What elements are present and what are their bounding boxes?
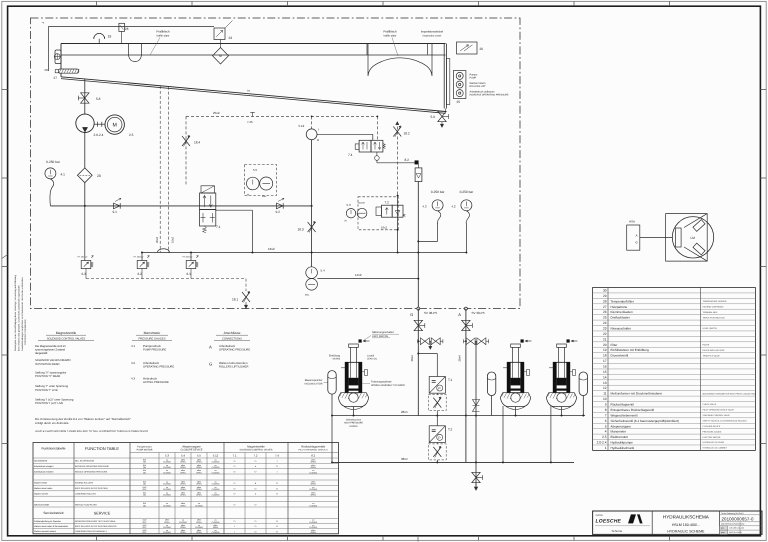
svg-text:Walzen manuell senken: Walzen manuell senken xyxy=(34,530,57,533)
svg-text:18.2: 18.2 xyxy=(404,132,410,136)
svg-text:Niveauschalter: Niveauschalter xyxy=(611,327,631,331)
svg-text:Arbeitsdruck aufbauen: Arbeitsdruck aufbauen xyxy=(470,91,496,94)
svg-text:CLOSED: CLOSED xyxy=(195,504,203,507)
svg-text:O: O xyxy=(276,465,278,468)
svg-text:2.96.199 LOe_ehd: 2.96.199 LOe_ehd xyxy=(729,527,744,530)
svg-text:CONNECTIONS: CONNECTIONS xyxy=(222,337,242,340)
svg-text:M: M xyxy=(113,123,117,129)
level switch 26 xyxy=(457,42,484,54)
svg-text:INCREASE OPERATING PRESSURE: INCREASE OPERATING PRESSURE xyxy=(470,93,509,96)
svg-text:5.3: 5.3 xyxy=(165,454,169,458)
svg-text:9.1: 9.1 xyxy=(113,210,118,214)
valve 23 xyxy=(214,21,233,41)
svg-text:Federungszylinder: Federungszylinder xyxy=(371,381,392,384)
svg-text:28: 28 xyxy=(603,299,607,303)
label Prallblech right xyxy=(383,30,398,57)
svg-text:Klemmenkasten: Klemmenkasten xyxy=(611,310,633,314)
motor 2.5 xyxy=(105,115,134,137)
svg-text:CLOSED: CLOSED xyxy=(212,531,220,534)
svg-text:FILTER: FILTER xyxy=(703,344,710,347)
safety valve 6.3 xyxy=(78,206,94,279)
svg-text:G: G xyxy=(209,361,212,366)
svg-text:REDUCE OPERATING PRESSURE: REDUCE OPERATING PRESSURE xyxy=(75,470,108,473)
svg-text:LEVEL SWITCH: LEVEL SWITCH xyxy=(703,327,718,330)
svg-text:O: O xyxy=(255,487,257,490)
svg-text:LOWERING ROLLERS MANUALLY: LOWERING ROLLERS MANUALLY xyxy=(75,530,108,533)
line 14x2 xyxy=(317,273,418,278)
svg-text:Dreifachtaster: Dreifachtaster xyxy=(611,316,630,320)
svg-text:7.4: 7.4 xyxy=(275,454,279,458)
svg-text:Stellung "I (x2)" unter Spannu: Stellung "I (x2)" unter Spannung xyxy=(35,399,74,402)
mill housing xyxy=(666,214,708,262)
svg-text:CLOSED: CLOSED xyxy=(163,483,171,486)
cylinder assembly 3 xyxy=(546,339,577,462)
svg-text:20: 20 xyxy=(603,343,607,347)
pipe x397 lower xyxy=(397,195,399,254)
svg-text:Prallblech: Prallblech xyxy=(156,30,170,34)
svg-text:15: 15 xyxy=(603,370,607,374)
svg-text:22: 22 xyxy=(603,332,607,336)
svg-text:OPEN: OPEN xyxy=(196,493,202,496)
svg-text:OPEN: OPEN xyxy=(311,531,317,534)
svg-text:5.12: 5.12 xyxy=(299,124,305,128)
node A on boundary xyxy=(458,307,484,317)
svg-text:7.1: 7.1 xyxy=(233,454,237,458)
svg-text:PILOT OPERATED CHECK V.: PILOT OPERATED CHECK V. xyxy=(299,449,329,452)
svg-text:SOLENOID CONTROL VALVES: SOLENOID CONTROL VALVES xyxy=(240,449,273,452)
function table xyxy=(33,443,339,535)
coupling xyxy=(94,122,105,127)
svg-text:HOSES: HOSES xyxy=(349,425,358,428)
svg-text:2.0-2.4: 2.0-2.4 xyxy=(597,441,607,445)
svg-text:20x2: 20x2 xyxy=(155,236,159,243)
pilot line from 5.12 xyxy=(317,134,373,140)
svg-text:Einfüllung: Einfüllung xyxy=(329,355,341,358)
svg-text:FILLER WITH AIR VENT: FILLER WITH AIR VENT xyxy=(703,349,726,352)
svg-text:O: O xyxy=(255,471,257,474)
svg-text:CLOSED: CLOSED xyxy=(163,466,171,469)
svg-text:A: A xyxy=(209,344,212,349)
svg-text:PARTIAL FLOW FILTER: PARTIAL FLOW FILTER xyxy=(75,503,97,506)
svg-text:gepr.: gepr. xyxy=(721,532,725,534)
svg-text:30: 30 xyxy=(603,289,607,293)
svg-text:OPEN: OPEN xyxy=(196,521,202,524)
throttle 18.4 xyxy=(182,116,200,185)
svg-text:1: 1 xyxy=(605,446,607,450)
drain valve bottom xyxy=(472,472,483,490)
svg-text:CLOSED: CLOSED xyxy=(309,521,317,524)
svg-text:O: O xyxy=(276,493,278,496)
svg-text:O: O xyxy=(255,504,257,507)
svg-text:CLOSED: CLOSED xyxy=(163,493,171,496)
svg-text:HYDRAULIC SCHEME: HYDRAULIC SCHEME xyxy=(667,529,705,533)
svg-text:O: O xyxy=(234,504,236,507)
tank top outline xyxy=(61,44,446,109)
svg-text:TRIPLE PUSH-BUTTON: TRIPLE PUSH-BUTTON xyxy=(703,316,726,319)
svg-text:0-250 bar: 0-250 bar xyxy=(431,190,446,194)
svg-text:23: 23 xyxy=(603,327,607,331)
manifold line L1 xyxy=(331,410,585,416)
svg-text:Pumpe: Pumpe xyxy=(470,74,479,77)
transmitter T.2 xyxy=(428,416,452,464)
svg-text:OPERATING PRESSURE: OPERATING PRESSURE xyxy=(219,349,250,352)
title block xyxy=(593,511,762,534)
svg-text:PUMP MOTOR: PUMP MOTOR xyxy=(137,448,153,451)
svg-text:14: 14 xyxy=(603,375,607,379)
svg-text:CLOSED: CLOSED xyxy=(163,461,171,464)
svg-text:O: O xyxy=(276,487,278,490)
svg-text:OPEN: OPEN xyxy=(180,488,186,491)
svg-text:Weitergabe sowie Vervielfältig: Weitergabe sowie Vervielfältigung dieser… xyxy=(14,274,17,351)
svg-text:Entsperrbares Rückschlagventil: Entsperrbares Rückschlagventil xyxy=(611,408,655,412)
svg-text:LIFTING PRESSURE: LIFTING PRESSURE xyxy=(143,381,169,384)
svg-text:OPEN: OPEN xyxy=(311,493,317,496)
branch to T1 xyxy=(418,354,437,377)
svg-text:PT 200 bar: PT 200 bar xyxy=(183,256,193,259)
svg-text:6.1: 6.1 xyxy=(187,272,192,276)
notes connections xyxy=(209,331,250,368)
solenoid valve 7.4 xyxy=(348,116,386,162)
svg-text:4: 4 xyxy=(605,430,607,434)
suction pipe xyxy=(84,79,86,114)
fold mark bottom xyxy=(417,536,419,542)
svg-text:16x2: 16x2 xyxy=(268,247,275,251)
svg-text:Gelenkbuchse: Gelenkbuchse xyxy=(346,419,362,422)
svg-text:PT 160 bar: PT 160 bar xyxy=(134,256,144,259)
svg-text:Walzen oben halten b.Servicebe: Walzen oben halten b.Servicebetrieb xyxy=(34,525,69,528)
svg-text:18.4: 18.4 xyxy=(194,141,200,145)
svg-text:erfolgt durch ein Zeitrelais.: erfolgt durch ein Zeitrelais. xyxy=(35,421,69,425)
svg-text:INCREASE OPERATING PRESSURE: INCREASE OPERATING PRESSURE xyxy=(75,465,110,468)
throttle 18.2 xyxy=(393,122,410,196)
pressure pipe xyxy=(84,133,86,206)
svg-text:10: 10 xyxy=(603,397,607,401)
svg-text:27: 27 xyxy=(603,305,607,309)
svg-text:Rückschlagsventile: Rückschlagsventile xyxy=(301,444,325,448)
svg-text:CLOSED: CLOSED xyxy=(309,488,317,491)
svg-text:OPEN: OPEN xyxy=(196,531,202,534)
gauge 4.2 xyxy=(451,190,474,253)
svg-text:25: 25 xyxy=(603,316,607,320)
svg-text:baffle plate: baffle plate xyxy=(384,34,397,37)
svg-text:Wegeschieberventil: Wegeschieberventil xyxy=(611,413,638,417)
svg-text:2.5: 2.5 xyxy=(602,435,607,439)
svg-text:OPEN: OPEN xyxy=(196,488,202,491)
svg-text:OPEN: OPEN xyxy=(196,461,202,464)
svg-text:OPEN: OPEN xyxy=(311,466,317,469)
svg-text:4.3: 4.3 xyxy=(422,205,427,209)
svg-text:16: 16 xyxy=(603,365,607,369)
svg-text:16x2: 16x2 xyxy=(171,236,175,243)
svg-text:Walzen heben/senken: Walzen heben/senken xyxy=(219,361,248,365)
solenoid valve 7.1 xyxy=(200,186,253,233)
svg-text:PUMP PRESSURE: PUMP PRESSURE xyxy=(143,349,166,352)
labels cylinder 1 xyxy=(329,331,405,428)
svg-text:OPERATING PRESSURE: OPERATING PRESSURE xyxy=(143,366,174,369)
svg-text:Lecköl: Lecköl xyxy=(367,355,375,358)
svg-text:OPEN: OPEN xyxy=(180,471,186,474)
transmitter T.1 xyxy=(428,377,452,417)
heating cartridge 27 xyxy=(54,69,80,80)
svg-text:2.0-2.4: 2.0-2.4 xyxy=(94,133,104,137)
svg-text:Magnetventile: Magnetventile xyxy=(247,444,265,448)
tank top pipe line xyxy=(42,20,214,71)
svg-text:HYDRAULIC OIL PUMP: HYDRAULIC OIL PUMP xyxy=(703,441,725,444)
check valve 9.1 xyxy=(113,198,122,214)
svg-text:6: 6 xyxy=(605,419,607,423)
svg-text:LM: LM xyxy=(691,236,696,240)
svg-text:KEEP ROLLERS IN TOP POSITION S: KEEP ROLLERS IN TOP POSITION SERVICE xyxy=(75,525,117,528)
svg-text:28x4: 28x4 xyxy=(401,410,408,414)
svg-text:HEATING CARTRIDGE: HEATING CARTRIDGE xyxy=(703,305,725,308)
svg-text:Manometer: Manometer xyxy=(144,331,162,335)
svg-text:CLOSED: CLOSED xyxy=(212,493,220,496)
svg-text:13: 13 xyxy=(603,381,607,385)
svg-text:Hebedruck: Hebedruck xyxy=(143,376,158,380)
filter 20 xyxy=(77,168,100,183)
svg-text:Drosselventil: Drosselventil xyxy=(611,354,629,358)
svg-text:ELECTRIC MOTOR: ELECTRIC MOTOR xyxy=(703,436,721,439)
svg-text:FUNCTION TABLE: FUNCTION TABLE xyxy=(85,446,119,451)
baffle plate left xyxy=(129,44,142,62)
svg-text:ACCUMULATOR: ACCUMULATOR xyxy=(304,383,323,386)
svg-text:Arbeitsdruck: Arbeitsdruck xyxy=(219,344,236,348)
svg-text:14x2: 14x2 xyxy=(355,273,362,277)
svg-text:POSITION "I (x2)" LIVE: POSITION "I (x2)" LIVE xyxy=(35,402,63,405)
svg-text:dargestellt: dargestellt xyxy=(35,352,48,355)
svg-text:28: 28 xyxy=(125,27,129,31)
svg-text:OPEN: OPEN xyxy=(180,526,186,529)
svg-text:OPEN: OPEN xyxy=(311,461,317,464)
svg-text:O: O xyxy=(234,465,236,468)
svg-text:Filter: Filter xyxy=(611,343,618,347)
svg-text:CLOSED: CLOSED xyxy=(212,483,220,486)
svg-text:LOWERING ROLLERS: LOWERING ROLLERS xyxy=(75,493,96,496)
svg-text:7-26: 7-26 xyxy=(247,120,253,124)
svg-text:HYDRAULIKSCHEMA: HYDRAULIKSCHEMA xyxy=(663,514,710,519)
svg-text:CLOSED: CLOSED xyxy=(195,526,203,529)
svg-text:11: 11 xyxy=(603,392,607,396)
svg-text:CLOSED: CLOSED xyxy=(212,521,220,524)
svg-text:21: 21 xyxy=(603,337,607,341)
HSA junction box xyxy=(627,220,673,251)
svg-text:T.1: T.1 xyxy=(448,378,452,382)
svg-text:5.3: 5.3 xyxy=(347,203,352,207)
svg-text:CLOSED: CLOSED xyxy=(212,461,220,464)
svg-text:Absperrorgane: Absperrorgane xyxy=(611,424,632,428)
svg-text:RAISING ROLLERS: RAISING ROLLERS xyxy=(75,482,94,485)
svg-text:LIMIT SWITCH: LIMIT SWITCH xyxy=(372,335,388,338)
svg-text:I: I xyxy=(318,127,319,131)
svg-text:OPEN: OPEN xyxy=(180,531,186,534)
line to tee below 7.1 xyxy=(251,210,253,252)
svg-text:Pumpendruck: Pumpendruck xyxy=(143,344,161,348)
svg-text:5.12: 5.12 xyxy=(213,454,219,458)
svg-text:OPEN: OPEN xyxy=(196,466,202,469)
svg-text:O: O xyxy=(276,520,278,523)
svg-text:6.3: 6.3 xyxy=(82,272,87,276)
svg-text:CLOSED: CLOSED xyxy=(163,526,171,529)
svg-text:4.2: 4.2 xyxy=(131,361,135,365)
svg-text:G: G xyxy=(410,312,413,317)
tank level gauge right xyxy=(446,59,449,105)
svg-text:A: A xyxy=(458,312,461,317)
svg-text:38x4: 38x4 xyxy=(457,355,461,362)
svg-text:Stellung "I" unter Spannung: Stellung "I" unter Spannung xyxy=(35,385,68,388)
svg-text:CLOSED: CLOSED xyxy=(163,488,171,491)
svg-text:23: 23 xyxy=(229,36,233,40)
svg-text:Pumpenmotor: Pumpenmotor xyxy=(137,445,152,448)
svg-text:PRESSURE GAUGE: PRESSURE GAUGE xyxy=(703,430,722,433)
svg-text:CLOSED: CLOSED xyxy=(212,471,220,474)
svg-text:5.4: 5.4 xyxy=(321,268,326,272)
svg-text:SOLENOID VALVES DRAWN: SOLENOID VALVES DRAWN xyxy=(35,359,71,362)
svg-text:ROLLERS LIFT: ROLLERS LIFT xyxy=(470,85,487,88)
svg-text:Näherungsschalter: Näherungsschalter xyxy=(372,331,394,334)
filler 28 xyxy=(119,23,129,43)
svg-text:O: O xyxy=(255,530,257,533)
svg-text:OPEN: OPEN xyxy=(180,483,186,486)
svg-text:OPEN: OPEN xyxy=(213,526,219,529)
svg-text:Funktionstabelle: Funktionstabelle xyxy=(41,447,65,451)
notes solenoid valves xyxy=(35,331,94,405)
svg-text:4.3: 4.3 xyxy=(131,376,135,380)
svg-text:16x2: 16x2 xyxy=(381,225,388,229)
note valve 8.2 xyxy=(35,417,149,433)
tank top dividers xyxy=(367,44,428,55)
svg-text:17: 17 xyxy=(603,359,607,363)
svg-text:Elektromotor: Elektromotor xyxy=(611,435,629,439)
valve 5.9 xyxy=(431,109,449,128)
svg-text:Sicherheitsventil (6.1 baumust: Sicherheitsventil (6.1 baumustergeprüft/… xyxy=(611,419,679,423)
svg-text:Inspektionsdeckel: Inspektionsdeckel xyxy=(421,30,444,34)
svg-text:20100000657-0: 20100000657-0 xyxy=(722,516,755,521)
svg-text:inspection cover: inspection cover xyxy=(423,34,442,37)
svg-text:SV 38-PS: SV 38-PS xyxy=(472,311,485,315)
accumulator 2 xyxy=(487,372,495,416)
suction strainer xyxy=(54,50,61,64)
svg-text:Anschlüsse: Anschlüsse xyxy=(224,331,241,335)
svg-text:OPEN: OPEN xyxy=(180,493,186,496)
svg-text:SOLENOID CONTROL VALVES: SOLENOID CONTROL VALVES xyxy=(47,337,86,340)
svg-text:PRESSURE GAUGES: PRESSURE GAUGES xyxy=(138,337,165,340)
svg-text:ihres Inhaltes nicht gestattet: ihres Inhaltes nicht gestattet, soweit n… xyxy=(17,284,20,351)
svg-text:MILL IN OPERATION: MILL IN OPERATION xyxy=(75,460,95,463)
svg-text:IN POSITION DEAD: IN POSITION DEAD xyxy=(35,363,60,366)
svg-text:5.4: 5.4 xyxy=(181,454,185,458)
svg-text:O: O xyxy=(276,482,278,485)
breather 19 xyxy=(94,33,112,43)
svg-text:Rückschlagventil: Rückschlagventil xyxy=(611,403,635,407)
svg-text:OPEN: OPEN xyxy=(196,471,202,474)
svg-text:ROLLERS LIFT/LOWER: ROLLERS LIFT/LOWER xyxy=(219,366,248,369)
svg-text:Füllstandprüfung im Speicher: Füllstandprüfung im Speicher xyxy=(34,520,61,523)
svg-text:Servicebetrieb: Servicebetrieb xyxy=(43,511,64,515)
svg-text:T.2: T.2 xyxy=(448,427,452,431)
svg-text:LEAK OIL: LEAK OIL xyxy=(367,358,378,361)
collector line 16x2 xyxy=(142,247,467,254)
safety valve 6.2 xyxy=(134,252,150,279)
throttle 18.3 on riser xyxy=(298,140,316,267)
svg-text:O: O xyxy=(255,525,257,528)
tank suction dashed lines xyxy=(155,86,175,253)
svg-text:4.2: 4.2 xyxy=(451,205,456,209)
svg-text:O: O xyxy=(234,520,236,523)
svg-text:Zuwiderhandlungen verpflichten: Zuwiderhandlungen verpflichten zu Schade… xyxy=(21,277,24,351)
svg-text:Walzen oben halten: Walzen oben halten xyxy=(34,487,53,490)
pilot gauge 5.12 xyxy=(299,124,321,142)
svg-text:HIGH PRESSURE: HIGH PRESSURE xyxy=(344,422,363,425)
svg-text:SV 38-PS: SV 38-PS xyxy=(424,311,437,315)
svg-text:Arbeitsdruck steigern: Arbeitsdruck steigern xyxy=(34,465,54,468)
svg-text:8.2: 8.2 xyxy=(311,454,315,458)
svg-text:19: 19 xyxy=(603,348,607,352)
return filter diamond xyxy=(213,40,229,65)
valve 5.8 xyxy=(78,93,100,103)
svg-text:20: 20 xyxy=(97,174,101,178)
svg-text:7.2: 7.2 xyxy=(385,200,390,204)
svg-text:7.1: 7.1 xyxy=(216,225,221,229)
check valve 9.2 xyxy=(276,198,285,214)
left margin vertical note xyxy=(2,255,27,352)
drain dashed line xyxy=(86,279,250,309)
svg-text:0-250 bar: 0-250 bar xyxy=(460,190,475,194)
svg-text:O: O xyxy=(234,460,236,463)
svg-text:5.8: 5.8 xyxy=(96,97,101,101)
svg-text:CLOSED: CLOSED xyxy=(163,471,171,474)
svg-text:5.5: 5.5 xyxy=(253,168,258,172)
svg-text:5: 5 xyxy=(605,424,607,428)
svg-text:24: 24 xyxy=(603,321,607,325)
svg-text:CHECK VALVE: CHECK VALVE xyxy=(703,403,717,406)
svg-text:M: M xyxy=(345,220,347,223)
svg-text:O: O xyxy=(234,482,236,485)
svg-text:Magnetventile: Magnetventile xyxy=(56,331,77,335)
svg-text:18.1: 18.1 xyxy=(232,298,238,302)
svg-text:26: 26 xyxy=(480,47,484,51)
mill table circle xyxy=(672,217,713,258)
svg-text:CLOSURE DEVICE: CLOSURE DEVICE xyxy=(703,425,721,428)
svg-text:SOLENOID CONTROL VALVE: SOLENOID CONTROL VALVE xyxy=(703,414,731,417)
pilot dashed header xyxy=(186,111,378,129)
svg-text:CLOSED: CLOSED xyxy=(309,526,317,529)
svg-text:Prallblech: Prallblech xyxy=(383,30,397,34)
svg-text:OPEN: OPEN xyxy=(311,483,317,486)
pilot check valve 8.2 xyxy=(377,158,422,182)
cylinder assembly 1 xyxy=(338,339,369,415)
svg-text:8.2: 8.2 xyxy=(405,158,410,162)
svg-text:THROTTLE VALVE: THROTTLE VALVE xyxy=(703,354,721,357)
svg-text:OPEN: OPEN xyxy=(180,466,186,469)
svg-text:Maß WE/Datum/Name Name: Maß WE/Datum/Name Name xyxy=(721,523,744,526)
svg-text:VALVE 8.2 SWITCHED FROM "LOWER: VALVE 8.2 SWITCHED FROM "LOWER ROLLERS" … xyxy=(35,430,149,433)
test valve A xyxy=(463,338,488,345)
svg-text:16x200: 16x200 xyxy=(358,202,366,205)
main pressure line xyxy=(50,205,312,207)
svg-text:7.4: 7.4 xyxy=(348,153,353,157)
svg-text:HSA: HSA xyxy=(629,220,635,224)
parts list table xyxy=(593,288,757,451)
svg-text:4.1: 4.1 xyxy=(61,173,66,177)
svg-text:A: A xyxy=(635,234,637,238)
svg-text:gez.: gez. xyxy=(721,528,725,530)
label Prallblech left xyxy=(150,30,170,56)
hydraulic cabinet boundary (dash-dot) xyxy=(31,18,521,309)
svg-text:O: O xyxy=(255,460,257,463)
G supply pipe upper xyxy=(417,182,419,309)
svg-text:Walzen senken: Walzen senken xyxy=(34,493,49,496)
svg-text:HYDRAULIC OIL CABINET: HYDRAULIC OIL CABINET xyxy=(703,447,728,450)
